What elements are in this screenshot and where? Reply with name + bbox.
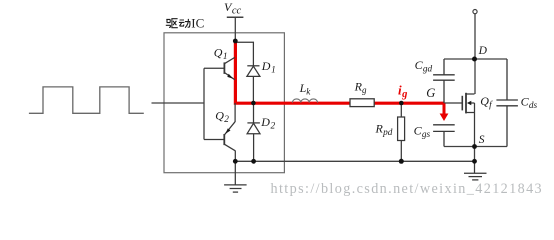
svg-text:Rg: Rg [354,80,367,96]
label 驱动IC [166,19,190,28]
drain terminal [473,10,477,14]
动 right 力 [185,19,190,28]
svg-text:Cds: Cds [521,95,538,112]
diode D2 [247,103,260,161]
驱 left radical [166,19,171,27]
svg-text:S: S [479,134,485,146]
svg-text:Vcc: Vcc [224,0,242,17]
svg-text:https://blog.csdn.net/weixin_4: https://blog.csdn.net/weixin_42121843 [271,181,544,197]
driver IC box U1 [164,33,284,173]
capacitor Cgs [433,125,455,147]
diode D1 [235,42,260,103]
wire input to bases [152,102,205,104]
svg-text:D1: D1 [261,59,276,76]
svg-text:D2: D2 [260,115,275,132]
svg-text:Q2: Q2 [215,108,229,125]
动 left 云 [179,20,185,26]
svg-text:IC: IC [191,15,204,30]
transistor Q1 [204,57,235,79]
resistor Rg [350,99,374,107]
ground (driver) [224,161,247,192]
wire base column [203,68,205,139]
驱 right part 区 [172,19,178,28]
transistor Q2 [204,103,235,161]
MOSFET Qf [445,93,475,147]
wire square wave input [29,87,144,113]
drain rail wire [444,58,507,60]
svg-text:Q1: Q1 [214,45,228,62]
power Vcc [227,16,244,18]
svg-text:G: G [426,86,435,100]
red arrow current into Cgs [440,103,449,121]
svg-text:Rpd: Rpd [375,122,393,139]
source rail wire [444,146,507,148]
svg-text:Lk: Lk [299,81,312,97]
svg-text:Qf: Qf [480,94,493,111]
red gate-current path [235,41,444,103]
capacitor Cds [496,59,518,147]
svg-text:Cgd: Cgd [415,58,433,75]
svg-text:D: D [478,45,488,57]
svg-text:ig: ig [398,83,407,101]
resistor Rpd [400,103,402,117]
ground (power) [464,161,487,180]
capacitor Cgd [433,59,455,103]
inductor Lk [292,99,317,103]
wire S to bottom rail [474,147,476,162]
svg-text:Cgs: Cgs [414,124,431,141]
junction dots [233,39,477,164]
bottom rail wire [235,160,474,162]
